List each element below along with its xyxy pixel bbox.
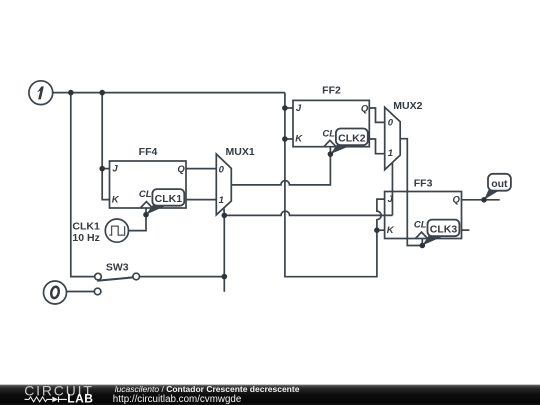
label flag CLK1 [146, 189, 184, 215]
CLK1 flag box [152, 189, 184, 206]
switch SW3 [94, 261, 139, 294]
node 0 circle [44, 281, 67, 304]
wire: CLK1 source to FF4 clock [129, 208, 147, 231]
out flag box [488, 174, 511, 191]
node: FF3 K junction [374, 227, 380, 233]
wire: node 0 to lower throw [66, 291, 94, 293]
wire: MUX2 output down to FF3 clock [400, 139, 422, 246]
svg-text:10 Hz: 10 Hz [72, 232, 99, 244]
wire: FF2 Q to MUX2 input 0 [369, 108, 384, 122]
svg-text:CLK3: CLK3 [430, 224, 458, 236]
FF4 clock edge triangle [140, 202, 152, 208]
wire: FF2 K stub [285, 138, 293, 140]
svg-text:MUX2: MUX2 [393, 100, 422, 112]
node: FF3 clock junction [420, 243, 426, 249]
flip-flop FF4 [110, 146, 187, 208]
svg-text:CLK1: CLK1 [72, 220, 100, 232]
wire: select line horizontal to MUX2 select (hop over vertical) [224, 211, 392, 215]
node: FF2 K junction [282, 136, 288, 142]
wire: FF3 row2 stub [462, 229, 470, 231]
svg-text:Q: Q [361, 103, 369, 114]
CLK3 flag pointer wedge [422, 236, 442, 246]
CLK1 square wave glyph [109, 226, 124, 235]
node: rail junction at switch drop [68, 90, 74, 96]
wire: MUX1 select stub [223, 208, 225, 215]
svg-text:FF3: FF3 [414, 177, 433, 189]
svg-text:K: K [387, 225, 395, 236]
svg-text:0: 0 [388, 118, 394, 129]
node: switch line tee [222, 274, 228, 280]
node 1 digit glyph [37, 86, 44, 99]
wire: FF3 J feed with hop over select line [377, 199, 385, 230]
node 0 digit glyph [50, 286, 60, 299]
wire: rail end drop to FF3 J/K (U shape) [285, 93, 377, 277]
CLK3 flag box [428, 220, 460, 237]
SW3 throw 0 contact [94, 288, 101, 295]
node: out junction [481, 197, 487, 203]
bottom info bar [0, 384, 540, 405]
MUX2 body trapezoid [385, 107, 401, 170]
CLK2 flag pointer wedge [330, 145, 350, 155]
MUX1 body trapezoid [216, 154, 231, 215]
wire: MUX1 output to FF2 clock node (hop over vertical) [231, 154, 330, 185]
svg-text:Q: Q [177, 164, 185, 175]
svg-text:1: 1 [219, 195, 224, 206]
clock source CLK1 [72, 219, 128, 244]
wire: FF4 J stub [102, 168, 109, 170]
flip-flop FF3 [385, 177, 462, 238]
CLK1 source circle [105, 219, 128, 242]
logo CIRCUIT LAB [24, 382, 94, 405]
node 1 terminal [29, 81, 53, 105]
SW3 lever [97, 277, 133, 281]
mux MUX1 [216, 146, 255, 215]
svg-text:Q: Q [453, 195, 461, 206]
wire: select line down to switch common and stub end [223, 215, 225, 291]
CLK2 flag box [336, 129, 368, 146]
wire: top rail from node 1 to FF2 drop [53, 92, 285, 94]
svg-text:K: K [112, 194, 120, 205]
SW3 common contact [133, 273, 140, 280]
svg-text:1: 1 [388, 148, 393, 159]
svg-text:SW3: SW3 [106, 261, 129, 273]
svg-text:0: 0 [219, 164, 225, 175]
FF2 clock edge triangle [324, 140, 336, 146]
svg-text:J: J [112, 164, 118, 175]
svg-text:FF2: FF2 [322, 84, 341, 96]
wire: FF4 row2 to MUX1 input 1 [186, 199, 216, 201]
FF3 body [385, 192, 462, 239]
wire: FF2 CL pin stub [329, 147, 331, 154]
CLK1 flag pointer wedge [146, 204, 167, 214]
svg-text:FF4: FF4 [139, 146, 158, 158]
svg-text:out: out [491, 178, 508, 190]
wire: FF3 K stub [377, 229, 385, 231]
wire: FF3 CL pin stub [421, 239, 423, 246]
node: FF2 J junction [282, 105, 288, 111]
wire: MUX2 select drop [391, 163, 393, 216]
wire: rail down to FF4 J/K [102, 93, 109, 200]
svg-text:CL: CL [139, 189, 152, 200]
svg-text:K: K [295, 134, 303, 145]
node: FF2 clock junction [328, 151, 334, 157]
wire: rail down to switch top throw [71, 93, 95, 277]
FF3 clock edge triangle [416, 232, 428, 238]
out flag pointer wedge [484, 190, 499, 200]
flip-flop FF2 [293, 84, 369, 146]
svg-text:LAB: LAB [67, 391, 93, 405]
wire: FF2 row2 to MUX2 input 1 [369, 139, 384, 154]
svg-text:CL: CL [322, 129, 335, 140]
label flag CLK3 [422, 220, 459, 246]
credit text [113, 384, 300, 405]
FF2 body [293, 100, 369, 146]
svg-text:J: J [296, 103, 302, 114]
mux MUX2 [385, 100, 423, 170]
svg-text:CLK2: CLK2 [338, 133, 366, 145]
node: FF4 clock junction [143, 212, 149, 218]
node: rail junction at FF4 drop [99, 90, 105, 96]
svg-text:http://circuitlab.com/cvmwgde: http://circuitlab.com/cvmwgde [113, 394, 242, 405]
FF4 body [110, 161, 187, 208]
node: FF4 J junction [99, 166, 105, 172]
node 0 terminal [44, 281, 67, 304]
svg-text:MUX1: MUX1 [226, 146, 255, 158]
wire: switch common to select tee [140, 276, 225, 278]
svg-text:J: J [388, 194, 394, 205]
wire: FF3 Q output to out [462, 199, 500, 201]
svg-text:CL: CL [414, 220, 427, 231]
wire: FF2 J stub [285, 107, 293, 109]
label flag CLK2 [330, 129, 368, 155]
wire: FF4 Q to MUX1 input 0 [186, 168, 216, 170]
node: select tee [222, 213, 228, 219]
label flag out [484, 174, 511, 200]
SW3 throw 1 contact [95, 273, 102, 280]
svg-text:lucascilento / Contador Cresce: lucascilento / Contador Crescente decres… [115, 384, 300, 394]
node 1 circle [29, 81, 53, 105]
svg-text:CLK1: CLK1 [155, 193, 183, 205]
